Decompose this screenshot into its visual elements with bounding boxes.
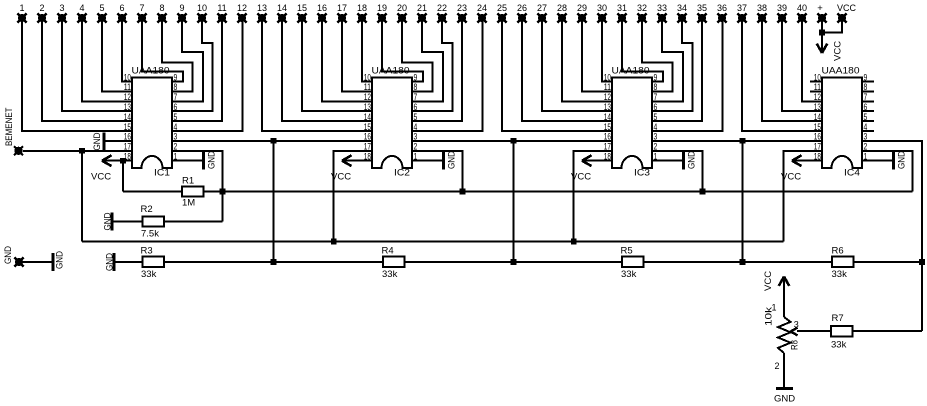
svg-text:6: 6	[174, 102, 178, 112]
svg-text:4: 4	[414, 122, 418, 132]
connector pad 15	[297, 13, 306, 22]
svg-text:9: 9	[179, 3, 184, 13]
svg-text:8: 8	[159, 3, 164, 13]
svg-text:15: 15	[124, 122, 131, 132]
svg-text:33: 33	[657, 3, 667, 13]
wire BEMENET input bus	[82, 241, 784, 243]
VCC arrow at IC1 pin 18	[104, 160, 132, 162]
connector pad 11	[217, 13, 226, 22]
svg-text:R6: R6	[832, 246, 844, 257]
svg-text:33k: 33k	[382, 269, 398, 280]
wire pad 31 to IC3 pin 9	[622, 18, 663, 82]
wire IC3 pin 3 to IC4 pin 16 (node bus)	[652, 140, 822, 142]
svg-text:16: 16	[604, 132, 611, 142]
svg-text:27: 27	[537, 3, 547, 13]
wire reference junction down to R2	[222, 192, 224, 222]
connector pad 10	[197, 13, 206, 22]
connector pad 33	[657, 13, 666, 22]
wire junction down to resistor chain	[742, 141, 744, 262]
connector pad + (supply)	[817, 13, 826, 22]
svg-text:VCC: VCC	[833, 41, 844, 61]
wire R4 to R5	[405, 261, 623, 263]
ground symbol at R8	[776, 387, 793, 390]
svg-text:11: 11	[217, 3, 226, 13]
junction input bus / IC3 pin17	[571, 239, 577, 245]
connector pad 28	[557, 13, 566, 22]
IC4 pin numbers right (9-1)	[864, 72, 868, 161]
R8 wiper arrow	[791, 328, 798, 336]
svg-text:7: 7	[864, 92, 868, 102]
svg-text:VCC: VCC	[763, 271, 774, 291]
svg-text:12: 12	[364, 92, 371, 102]
svg-text:13: 13	[364, 102, 371, 112]
wire pad 11 to IC1 pin 5	[172, 18, 222, 121]
wire IC1 pin 4 to pad 12	[172, 18, 243, 131]
svg-text:16: 16	[814, 132, 821, 142]
svg-text:13: 13	[814, 102, 821, 112]
connector pad 4	[77, 13, 86, 22]
svg-text:15: 15	[297, 3, 307, 13]
svg-text:31: 31	[617, 3, 627, 13]
ground symbol at IC2 pin 1	[412, 160, 444, 162]
wire pad 13 to IC2 pin 15	[262, 18, 372, 131]
connector pad 6	[117, 13, 126, 22]
wire IC3 pin 4 to pad 36	[652, 18, 723, 131]
svg-text:GND: GND	[687, 151, 698, 169]
wire R6 to chain end	[854, 261, 923, 263]
svg-text:IC2: IC2	[394, 168, 410, 179]
svg-text:30: 30	[597, 3, 607, 13]
svg-text:19: 19	[377, 3, 387, 13]
connector pad 22	[437, 13, 446, 22]
connector pad 14	[277, 13, 286, 22]
svg-text:9: 9	[864, 72, 868, 82]
svg-text:9: 9	[414, 72, 418, 82]
connector pad 25	[497, 13, 506, 22]
svg-text:13: 13	[604, 102, 611, 112]
wire pad 16 to IC2 pin 12	[322, 18, 372, 101]
svg-text:17: 17	[337, 3, 347, 13]
svg-text:10: 10	[604, 72, 611, 82]
svg-text:7: 7	[414, 92, 418, 102]
wire pad 39 to IC4 pin 13	[782, 18, 822, 111]
svg-text:R1: R1	[182, 176, 194, 187]
svg-text:40: 40	[797, 3, 807, 13]
connector pad 27	[537, 13, 546, 22]
connector pad 37	[737, 13, 746, 22]
VCC arrow at IC3 pin 18	[584, 160, 612, 162]
junction R5-R6 node / IC3 pin3	[740, 259, 746, 265]
svg-text:10: 10	[197, 3, 207, 13]
connector pad 38	[757, 13, 766, 22]
wire pad 38 to IC4 pin 14	[762, 18, 822, 121]
svg-text:10k: 10k	[764, 307, 775, 326]
ground symbol at R2	[113, 221, 143, 223]
svg-text:4: 4	[654, 122, 658, 132]
IC2 pin numbers left (10-18)	[364, 72, 371, 161]
wire VCC pad to + wire	[822, 22, 842, 33]
IC3 pin numbers left (10-18)	[604, 72, 611, 161]
svg-text:38: 38	[757, 3, 767, 13]
wire pad 20 to IC2 pin 8	[402, 18, 433, 91]
connector pad 19	[377, 13, 386, 22]
connector pad 8	[157, 13, 166, 22]
svg-text:33k: 33k	[621, 269, 637, 280]
connector pad 35	[697, 13, 706, 22]
connector pad 31	[617, 13, 626, 22]
op-amp/driver IC3 UAA180 body	[612, 78, 652, 169]
IC4 unconnected pin 11 stub	[810, 90, 822, 92]
connector pad 9	[177, 13, 186, 22]
wire pad 2 to IC1 pin 14	[42, 18, 132, 121]
wire pad 25 to IC3 pin 15	[502, 18, 612, 131]
svg-text:8: 8	[174, 82, 178, 92]
wire pad 37 to IC4 pin 15	[742, 18, 822, 131]
junction on IC1 pin 3 bus	[271, 138, 277, 144]
connector pad 30	[597, 13, 606, 22]
VCC arrow at IC4 pin 18	[794, 160, 822, 162]
svg-text:26: 26	[517, 3, 527, 13]
wire pad 21 to IC2 pin 7	[412, 18, 443, 101]
connector pad 23	[457, 13, 466, 22]
wire R8 pin 2 to ground	[783, 353, 785, 388]
ground symbol at IC1 pin 1	[172, 160, 204, 162]
svg-text:33k: 33k	[831, 340, 847, 351]
wire pad 35 to IC3 pin 5	[652, 18, 702, 121]
connector pad 1	[17, 13, 26, 22]
svg-text:35: 35	[697, 3, 707, 13]
wire pad 23 to IC2 pin 5	[412, 18, 462, 121]
connector pad 17	[337, 13, 346, 22]
wire pad 28 to IC3 pin 12	[562, 18, 612, 101]
ground symbol at IC1 pin 16	[103, 140, 132, 142]
svg-text:6: 6	[414, 102, 418, 112]
connector pad BEMENET input	[14, 146, 23, 155]
svg-text:5: 5	[414, 112, 418, 122]
svg-text:IC3: IC3	[634, 168, 650, 179]
IC4 unconnected pin 4 stub	[862, 130, 874, 132]
wire pad 7 to IC1 pin 9	[142, 18, 183, 82]
wire R5 to R6	[644, 261, 833, 263]
svg-text:+: +	[817, 3, 823, 14]
svg-text:GND: GND	[92, 132, 103, 150]
junction BEMENET net	[79, 148, 85, 154]
connector pad 18	[357, 13, 366, 22]
wire IC2 pin 4 to pad 24	[412, 18, 483, 131]
svg-text:BEMENET: BEMENET	[4, 107, 15, 146]
ground symbol at IC3 pin 1	[652, 160, 684, 162]
svg-text:R8: R8	[789, 340, 800, 350]
wire pad 8 to IC1 pin 8	[162, 18, 193, 91]
connector pad 16	[317, 13, 326, 22]
IC1 pin numbers left (10-18)	[124, 72, 131, 161]
svg-text:13: 13	[124, 102, 131, 112]
junction IC3 pin 2 on reference bus	[700, 189, 706, 195]
connector pad GND input	[14, 257, 23, 266]
wire pad 3 to IC1 pin 13	[62, 18, 132, 111]
svg-text:8: 8	[864, 82, 868, 92]
svg-text:6: 6	[119, 3, 124, 13]
connector pad 34	[677, 13, 686, 22]
svg-text:2: 2	[39, 3, 44, 13]
IC4 unconnected pin 9 stub	[862, 81, 874, 83]
svg-text:GND: GND	[207, 151, 218, 169]
wire IC2 pin 2 down to reference bus	[412, 151, 463, 192]
svg-text:10: 10	[364, 72, 371, 82]
IC4 unconnected pin 5 stub	[862, 120, 874, 122]
wire pad 29 to IC3 pin 11	[582, 18, 612, 91]
wire pad 5 to IC1 pin 11	[102, 18, 132, 91]
op-amp/driver IC1 UAA180 body	[132, 78, 172, 169]
connector pad 39	[777, 13, 786, 22]
svg-text:10: 10	[814, 72, 821, 82]
svg-text:IC4: IC4	[844, 168, 860, 179]
ground symbol at IC4 pin 1	[862, 160, 894, 162]
IC2 pin numbers right (9-1)	[414, 72, 418, 161]
svg-text:14: 14	[277, 3, 287, 13]
op-amp/driver IC4 UAA180 body	[822, 78, 862, 169]
connector pad 12	[237, 13, 246, 22]
svg-text:12: 12	[604, 92, 611, 102]
svg-text:13: 13	[257, 3, 267, 13]
svg-text:18: 18	[357, 3, 367, 13]
connector pad 5	[97, 13, 106, 22]
wire pad 34 to IC3 pin 6	[652, 18, 693, 111]
resistor R4	[383, 257, 405, 268]
junction R3-R4 node / IC1 pin3	[271, 259, 277, 265]
svg-text:20: 20	[397, 3, 407, 13]
wire R8 wiper to R7	[797, 330, 831, 332]
svg-text:21: 21	[417, 3, 427, 13]
svg-text:14: 14	[124, 112, 131, 122]
svg-text:R3: R3	[141, 246, 153, 257]
svg-text:39: 39	[777, 3, 787, 13]
wire IC2 pin 17 to input bus riser	[334, 151, 372, 242]
svg-text:UAA180: UAA180	[822, 65, 860, 76]
svg-text:1M: 1M	[182, 198, 195, 209]
svg-text:6: 6	[864, 102, 868, 112]
wire junction down to resistor chain	[273, 141, 275, 262]
IC4 unconnected pin 10 stub	[810, 81, 822, 83]
svg-text:37: 37	[737, 3, 747, 13]
wire pad 30 to IC3 pin 10	[602, 18, 612, 82]
wire pad 22 to IC2 pin 6	[412, 18, 453, 111]
wire IC3 pin 2 down to reference bus	[652, 151, 703, 192]
svg-text:33k: 33k	[141, 269, 157, 280]
svg-text:14: 14	[604, 112, 611, 122]
connector pad 29	[577, 13, 586, 22]
svg-text:36: 36	[717, 3, 727, 13]
IC4 unconnected pin 6 stub	[862, 110, 874, 112]
wire pad 40 to IC4 pin 12	[802, 18, 822, 101]
svg-text:4: 4	[79, 3, 84, 13]
svg-text:24: 24	[477, 3, 487, 13]
IC1 pin numbers right (9-1)	[174, 72, 178, 161]
connector pad 21	[417, 13, 426, 22]
svg-text:7: 7	[654, 92, 658, 102]
svg-text:25: 25	[497, 3, 507, 13]
IC4 unconnected pin 7 stub	[862, 100, 874, 102]
ground symbol at GND input	[52, 253, 55, 271]
VCC arrow at IC2 pin 18	[344, 160, 372, 162]
wire IC1 pin18 junction down to R1	[120, 158, 126, 164]
svg-text:5: 5	[99, 3, 104, 13]
wire IC1 pin 3 to IC2 pin 16 (node bus)	[172, 140, 372, 142]
svg-text:6: 6	[654, 102, 658, 112]
connector pad 2	[37, 13, 46, 22]
svg-text:28: 28	[557, 3, 567, 13]
junction IC1 pin 2 on reference bus	[220, 189, 226, 195]
svg-text:GND: GND	[103, 212, 114, 230]
svg-text:8: 8	[414, 82, 418, 92]
junction on IC2 pin 3 bus	[511, 138, 517, 144]
svg-text:15: 15	[364, 122, 371, 132]
wire pad 26 to IC3 pin 14	[522, 18, 612, 121]
svg-text:29: 29	[577, 3, 587, 13]
svg-text:GND: GND	[897, 151, 908, 169]
connector pad 26	[517, 13, 526, 22]
svg-text:GND: GND	[54, 251, 65, 269]
svg-text:GND: GND	[3, 246, 14, 264]
svg-text:22: 22	[437, 3, 447, 13]
wire pad 1 to IC1 pin 15	[22, 18, 132, 131]
resistor R2	[143, 217, 165, 227]
resistor R7	[831, 326, 853, 337]
connector pad 13	[257, 13, 266, 22]
svg-text:32: 32	[637, 3, 647, 13]
wire IC2 pin 3 to IC3 pin 16 (node bus)	[412, 140, 612, 142]
wire BEMENET pad to IC1 pin 17	[23, 150, 132, 152]
connector pad 7	[137, 13, 146, 22]
svg-text:VCC: VCC	[837, 3, 857, 13]
connector pad 3	[57, 13, 66, 22]
connector pad 32	[637, 13, 646, 22]
svg-text:2: 2	[774, 361, 779, 371]
svg-text:14: 14	[814, 112, 821, 122]
wire R2 right side	[164, 221, 223, 223]
wire pad 19 to IC2 pin 9	[382, 18, 423, 82]
wire R1 right / reference bus	[204, 191, 913, 193]
wire pad 15 to IC2 pin 13	[302, 18, 372, 111]
svg-text:11: 11	[124, 82, 131, 92]
svg-text:11: 11	[604, 82, 611, 92]
wire junction down to resistor chain	[513, 141, 515, 262]
connector pad 36	[717, 13, 726, 22]
IC4 pin numbers left (10-18)	[814, 72, 821, 161]
svg-text:4: 4	[174, 122, 178, 132]
svg-text:GND: GND	[774, 394, 795, 405]
svg-text:11: 11	[364, 82, 371, 92]
wire pad 4 to IC1 pin 12	[82, 18, 132, 101]
connector pad 24	[477, 13, 486, 22]
connector pad 20	[397, 13, 406, 22]
svg-text:8: 8	[654, 82, 658, 92]
wire IC4 pin 17 to input bus riser	[784, 151, 822, 242]
svg-text:12: 12	[124, 92, 131, 102]
svg-text:5: 5	[654, 112, 658, 122]
svg-text:33k: 33k	[832, 269, 848, 280]
resistor R5	[622, 257, 644, 268]
op-amp/driver IC2 UAA180 body	[372, 78, 412, 169]
svg-text:R4: R4	[382, 246, 394, 257]
wire IC4 pin 3 right and down to R7	[862, 141, 922, 331]
svg-text:R7: R7	[832, 313, 844, 324]
svg-text:4: 4	[864, 122, 868, 132]
junction input bus / IC2 pin17	[331, 239, 337, 245]
wire pad 32 to IC3 pin 8	[642, 18, 673, 91]
IC4 unconnected pin 8 stub	[862, 90, 874, 92]
wire BEMENET junction down to input bus	[81, 151, 83, 242]
svg-text:R2: R2	[141, 204, 153, 215]
connector pad VCC (supply)	[837, 13, 846, 22]
wire GND pad to ground symbol	[23, 261, 52, 263]
wire pad 10 to IC1 pin 6	[172, 18, 213, 111]
svg-text:7.5k: 7.5k	[141, 229, 159, 240]
wire IC3 pin 17 to input bus riser	[574, 151, 612, 242]
svg-text:9: 9	[174, 72, 178, 82]
svg-text:15: 15	[814, 122, 821, 132]
svg-text:34: 34	[677, 3, 687, 13]
svg-text:7: 7	[139, 3, 144, 13]
wire pad 6 to IC1 pin 10	[122, 18, 132, 82]
wire R3 to R4	[164, 261, 383, 263]
wire pad 33 to IC3 pin 7	[652, 18, 683, 101]
svg-text:R5: R5	[621, 246, 633, 257]
wire IC1 pin 2 down to reference bus	[172, 151, 223, 192]
svg-text:9: 9	[654, 72, 658, 82]
svg-text:5: 5	[864, 112, 868, 122]
svg-text:VCC: VCC	[91, 172, 111, 183]
svg-text:16: 16	[317, 3, 327, 13]
svg-text:IC1: IC1	[154, 168, 170, 179]
junction IC4 pin3 riser / resistor chain	[919, 259, 925, 265]
svg-text:12: 12	[814, 92, 821, 102]
junction + / VCC	[819, 30, 825, 36]
connector pad 40	[797, 13, 806, 22]
potentiometer R8 zigzag	[778, 317, 791, 353]
svg-text:GND: GND	[447, 151, 458, 169]
wire pad 18 to IC2 pin 10	[362, 18, 372, 82]
svg-text:10: 10	[124, 72, 131, 82]
svg-text:12: 12	[237, 3, 247, 13]
resistor R3	[143, 257, 165, 268]
svg-text:1: 1	[19, 3, 24, 13]
svg-text:16: 16	[364, 132, 371, 142]
wire pad 27 to IC3 pin 13	[542, 18, 612, 111]
svg-text:15: 15	[604, 122, 611, 132]
svg-text:23: 23	[457, 3, 467, 13]
resistor R6	[832, 257, 854, 268]
VCC supply arrow (down)	[821, 33, 823, 52]
wire pad 9 to IC1 pin 7	[172, 18, 203, 101]
svg-text:11: 11	[814, 82, 821, 92]
IC3 pin numbers right (9-1)	[654, 72, 658, 161]
wire + pad down to junction	[821, 22, 823, 34]
resistor R1	[182, 187, 204, 197]
junction IC2 pin 2 on reference bus	[460, 189, 466, 195]
junction R4-R5 node / IC2 pin3	[511, 259, 517, 265]
svg-text:5: 5	[174, 112, 178, 122]
junction on IC3 pin 3 bus	[740, 138, 746, 144]
svg-text:3: 3	[794, 320, 799, 330]
wire IC4 pin 2 down to reference bus	[862, 151, 913, 192]
svg-text:14: 14	[364, 112, 371, 122]
svg-text:7: 7	[174, 92, 178, 102]
wire pad 17 to IC2 pin 11	[342, 18, 372, 91]
wire VCC to R1 left	[123, 191, 182, 193]
svg-text:3: 3	[59, 3, 64, 13]
wire R7 right side	[853, 330, 923, 332]
